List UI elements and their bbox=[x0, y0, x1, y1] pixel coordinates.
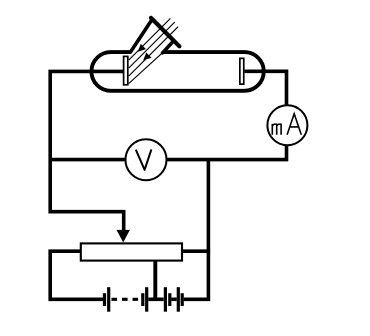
light ray 3 bbox=[129, 27, 178, 76]
battery GB cell4 positive long plate bbox=[177, 287, 180, 312]
phototube window left wall bbox=[131, 21, 152, 52]
light ray arrowhead on ray 1 bbox=[138, 45, 145, 52]
voltmeter label V bbox=[136, 149, 152, 169]
light ray 1 bbox=[129, 19, 171, 61]
light ray 2 bbox=[129, 22, 175, 68]
milliammeter label m bbox=[272, 124, 281, 135]
wire long horizontal voltmeter line with corner up to mA bbox=[50, 144, 286, 160]
wire potentiometer right terminal bbox=[182, 249, 210, 253]
wire potentiometer bottom tap to battery center bbox=[153, 261, 157, 301]
battery GB cell3 positive long plate bbox=[164, 287, 167, 312]
cathode plate K bbox=[124, 56, 128, 84]
wire battery mid segment bbox=[171, 297, 176, 301]
battery GB cell1 positive long plate bbox=[107, 287, 110, 312]
milliammeter mA circle bbox=[267, 105, 307, 145]
battery GB cell3 negative short plate bbox=[168, 293, 171, 306]
battery GB cell2 positive long plate bbox=[145, 287, 148, 312]
wire cathode feed, left vertical, elbow to slider arrow stem bbox=[50, 71, 128, 230]
wire right vertical from T-junction down and bottom segment to battery bbox=[184, 160, 209, 300]
battery GB cell2 negative short plate bbox=[141, 293, 144, 306]
wire anode feed and vertical down to mA top bbox=[245, 71, 287, 110]
light ray 4 bbox=[129, 41, 175, 83]
milliammeter label A bbox=[287, 114, 301, 135]
phototube window right wall bbox=[163, 41, 174, 53]
light ray arrowhead on ray 3 bbox=[144, 53, 151, 60]
potentiometer R body bbox=[81, 243, 182, 260]
battery GB cell1 negative short plate bbox=[103, 293, 106, 306]
phototube envelope outline with window gap bbox=[91, 52, 263, 91]
voltmeter V circle bbox=[126, 139, 167, 180]
wire battery center-tap segment bbox=[148, 297, 163, 301]
light source plate (thick diagonal bar) bbox=[151, 18, 179, 46]
wire potentiometer left terminal, lower-left vertical, bottom wire to battery bbox=[50, 251, 103, 299]
anode plate A bbox=[240, 58, 244, 84]
slider arrowhead pointing down at potentiometer bbox=[117, 230, 130, 243]
wire battery dashed section bbox=[112, 298, 141, 301]
battery GB cell4 negative short plate bbox=[181, 293, 184, 306]
